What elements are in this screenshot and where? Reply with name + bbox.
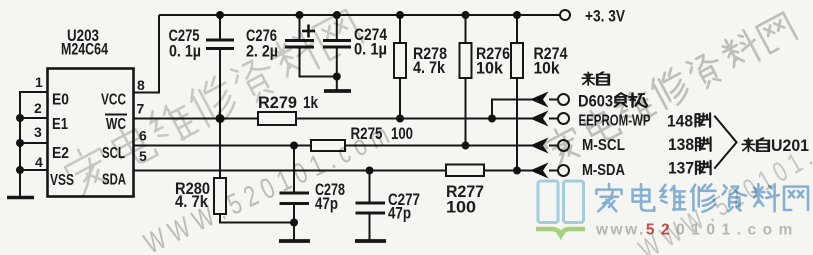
junction C275/VCC rail [216, 11, 224, 19]
svg-text:100: 100 [446, 199, 476, 217]
capacitor C274 [323, 41, 351, 48]
label 来自 (top) [582, 72, 594, 85]
wire arrow to D603 terminal [549, 99, 558, 101]
svg-text:10k: 10k [534, 60, 561, 78]
svg-text:7: 7 [137, 101, 145, 117]
junction R276/VCC rail [462, 11, 470, 19]
svg-text:WC: WC [106, 116, 126, 133]
svg-text:47p: 47p [315, 195, 338, 213]
wire: C274 branch to ground [336, 15, 338, 90]
wire arrow to M-SCL terminal [549, 145, 558, 147]
wire: C277 branch [369, 171, 371, 241]
svg-text:4: 4 [35, 154, 43, 170]
terminal D603 [558, 94, 569, 105]
wire: WC line R279 to arrow [296, 118, 532, 120]
MAIN SCHEMATIC [20, 15, 560, 240]
chip U203 body [48, 69, 134, 197]
svg-text:3: 3 [34, 124, 42, 140]
resistor R278 [394, 43, 406, 78]
resistor R274 [511, 43, 523, 78]
svg-text:0. 1µ: 0. 1µ [354, 41, 387, 59]
svg-text:1k: 1k [303, 94, 319, 112]
terminal EEPROM-WP [558, 113, 569, 124]
svg-text:E2: E2 [52, 145, 69, 162]
junction pin4 bus [16, 166, 24, 174]
junction pin3 bus [16, 139, 24, 147]
svg-text:138: 138 [668, 136, 694, 154]
svg-text:SDA: SDA [102, 172, 126, 189]
terminal M-SDA [558, 165, 569, 176]
label 脚 x3 [695, 113, 710, 127]
WC overline [105, 114, 127, 116]
watermark A: diagonal gray 家电维修资料网 (top-right) [541, 13, 797, 168]
svg-text:0. 1µ: 0. 1µ [169, 43, 201, 61]
wire: R276 branch [465, 15, 467, 146]
logo text 家电维修资料网 (blue) [596, 184, 808, 212]
svg-text:1: 1 [35, 74, 43, 90]
svg-text:E1: E1 [52, 116, 68, 133]
wire: VCC pin8 to rail riser [134, 15, 159, 93]
Chinese labels drawn as glyphs [582, 72, 769, 174]
junction R274/VCC rail [513, 11, 521, 19]
junction R276/SCL line [462, 142, 470, 150]
wire: SCL line R275 to arrow [345, 145, 532, 147]
wire: C278 branch [293, 146, 295, 241]
TEXT LABELS [50, 27, 126, 189]
logo book icon [538, 181, 584, 223]
label 来自 (U201) [742, 138, 754, 151]
bracket to U201 [714, 116, 736, 169]
svg-text:M24C64: M24C64 [61, 41, 109, 59]
junction R280-C278 ground node [290, 219, 298, 227]
arrow D603 input [530, 92, 549, 108]
wire: SCL pin6 line chip to R275 [134, 145, 311, 147]
watermark B: diagonal gray 家电维修资料网 (left-middle going up-right) [61, 10, 363, 197]
arrow M-SCL input [530, 138, 549, 154]
resistor R279 [258, 112, 296, 125]
wire: D603 branch [492, 100, 532, 119]
junction R278/WC line [396, 115, 404, 123]
capacitor C277 [356, 203, 386, 213]
junction C275-R280/WC line [216, 114, 225, 123]
svg-text:E0: E0 [52, 92, 69, 109]
ground C277 [355, 239, 386, 243]
terminal M-SCL [558, 140, 569, 151]
ground C276/C274 [324, 89, 351, 93]
junction C276-C274 ground node [333, 73, 341, 81]
pin numbers [34, 74, 147, 170]
svg-text:M-SCL: M-SCL [582, 137, 625, 154]
svg-text:137: 137 [668, 160, 694, 178]
capacitor C276 (+ sign) [285, 25, 315, 48]
resistor R280 [214, 178, 226, 214]
ground chip-left [7, 196, 34, 199]
wire: +3.3V top rail [159, 14, 560, 16]
junction C277/SDA line [366, 167, 374, 175]
wire: SDA line R277 to arrow [484, 170, 532, 172]
svg-text:100: 100 [391, 125, 413, 143]
arrow M-SDA input [530, 163, 549, 179]
wire arrow to M-SDA terminal [549, 170, 558, 172]
wire arrow to EEPROM-WP terminal [549, 118, 558, 120]
resistor R276 [460, 43, 472, 78]
capacitor C275 [206, 40, 234, 49]
junction pin2 bus [16, 114, 24, 122]
svg-text:10k: 10k [476, 60, 504, 78]
wire: C275/R280 vertical chain [220, 15, 294, 223]
svg-text:8: 8 [137, 77, 145, 93]
ground C278 [279, 239, 310, 243]
wire: R278 branch [399, 15, 401, 119]
wire: SDA pin5 line chip to R277 [134, 170, 446, 172]
arrow EEPROM-WP input [530, 111, 549, 127]
svg-text:148: 148 [667, 113, 693, 131]
wire: WC pin7 line chip to R279 [134, 118, 258, 120]
svg-text:M-SDA: M-SDA [582, 162, 625, 179]
wire: R274 branch [516, 15, 518, 171]
terminal +3.3V [560, 10, 570, 20]
wire: left pins bus and ground drop [20, 92, 48, 197]
svg-text:2: 2 [34, 100, 42, 116]
junction R278/VCC rail [396, 11, 404, 19]
junction D603 branch/WC line [488, 115, 496, 123]
capacitor C278 [280, 193, 310, 204]
svg-text:D603: D603 [578, 93, 613, 111]
junction C274/VCC rail [333, 11, 341, 19]
svg-text:+3. 3V: +3. 3V [585, 8, 625, 26]
logo green swoosh [536, 229, 585, 235]
component value labels [169, 8, 810, 223]
resistor R275 [311, 140, 345, 151]
svg-text:R279: R279 [258, 94, 297, 112]
resistor R277 [446, 165, 484, 177]
junction C278/SCL line [290, 142, 298, 150]
label 负极 [615, 93, 627, 107]
svg-text:VCC: VCC [101, 92, 126, 109]
svg-text:VSS: VSS [50, 172, 74, 189]
svg-text:47p: 47p [388, 205, 411, 223]
junction C276/VCC rail [296, 11, 304, 19]
svg-text:4. 7k: 4. 7k [413, 59, 446, 77]
junction R274/SDA line [513, 167, 521, 175]
wire: C276 branch [300, 15, 337, 77]
